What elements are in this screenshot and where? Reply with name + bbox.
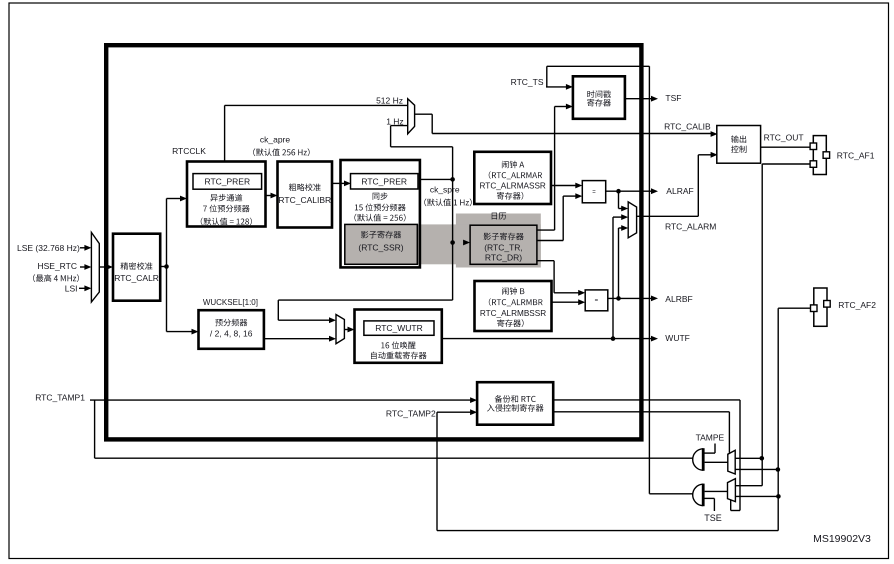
svg-text:512 Hz: 512 Hz [376, 96, 403, 106]
svg-text:ck_spre: ck_spre [430, 184, 460, 194]
wire compA down to alarm mux [618, 191, 620, 208]
wire into timestamp 2 [555, 106, 567, 108]
pin RTC_AF1 pad right [823, 152, 830, 159]
wire wakeup mux out [344, 329, 348, 331]
node ALRAF junction [616, 189, 621, 194]
pin RTC_AF2 pad left [811, 305, 818, 312]
node AF2 junction 1 [776, 467, 781, 472]
svg-text:ALRBF: ALRBF [665, 294, 692, 304]
wire tamp1 down [94, 400, 96, 458]
wire backup out Q [553, 411, 729, 413]
wire to wakeup prescaler [167, 331, 193, 333]
node AF1 tamper junction [760, 456, 765, 461]
svg-text:LSE (32.768 Hz): LSE (32.768 Hz) [17, 243, 80, 253]
arrow TSF [651, 96, 658, 102]
wire tse gate out [705, 490, 728, 492]
inner box RTC_PRER sync [351, 174, 419, 189]
text 默认值256 [354, 214, 405, 222]
wire to alarm mux bottom [619, 227, 623, 229]
wire compA in2 up [562, 196, 564, 240]
node ALRBF junction [616, 296, 621, 301]
wire TSE up [713, 498, 715, 511]
text 粗略校准 [289, 183, 321, 191]
svg-text:TSE: TSE [704, 513, 722, 523]
wire ALRAF line [606, 190, 652, 192]
text 输出 [731, 135, 746, 143]
wire WUTF line [442, 338, 652, 340]
text 精密校准 [121, 262, 153, 270]
wire wutf to alarm mux [613, 216, 622, 218]
arrow into wakeup prescaler [192, 329, 199, 335]
block timestamp registers [573, 76, 625, 119]
wire compA in2 [563, 195, 576, 197]
text 影子寄存器 SSR [361, 231, 401, 239]
svg-text:RTC_AF1: RTC_AF1 [837, 151, 875, 161]
wire alarmB to compB [552, 301, 580, 303]
svg-text:RTC_AF2: RTC_AF2 [838, 300, 876, 310]
wire 1Hz up [452, 147, 454, 180]
svg-text:RTC_OUT: RTC_OUT [764, 133, 804, 143]
arrow into timestamp 2 [566, 104, 573, 110]
arrow alarm mux bottom [621, 225, 628, 231]
wire AF1 down [761, 164, 763, 458]
svg-text:MS19902V3: MS19902V3 [813, 533, 871, 545]
svg-text:LSI: LSI [65, 284, 78, 294]
wire ck_spre down3 [277, 300, 279, 320]
block RTC_CALR smooth calibration [113, 234, 160, 301]
arrow into sync prescaler [344, 181, 351, 187]
wire ck_spre to wakeup mux [278, 319, 330, 321]
wire AF1 down2 [761, 458, 763, 485]
wire compB up to alarm mux [618, 228, 620, 298]
block wakeup prescaler [199, 310, 264, 349]
wire RTC_OUT [761, 146, 810, 148]
arrow into RTC_CALR [106, 264, 113, 270]
text 寄存器) A [497, 192, 523, 200]
wire RTCCLK up [166, 199, 168, 267]
wire ck_spre out [420, 178, 453, 180]
node RTCCLK junction [164, 264, 169, 269]
wire async to calibr [266, 195, 273, 197]
wire AF1 to ts mux [735, 485, 762, 487]
wire tamp2 into backup [437, 411, 471, 413]
wire RTC_ALARM [637, 215, 699, 217]
wire down to wakeup prescaler [166, 267, 168, 332]
svg-text:HSE_RTC: HSE_RTC [37, 261, 77, 271]
gate TAMPE AND bar [702, 448, 705, 471]
arrow into shadow TR DR [463, 240, 470, 246]
pin RTC_AF2 body [814, 288, 827, 326]
wire RTC_TS loop top [547, 65, 650, 67]
arrow ALRAF [651, 188, 658, 194]
comparator B [585, 290, 608, 311]
arrow LSE into mux [84, 245, 91, 251]
block async 7-bit prescaler RTC_PRER [187, 162, 266, 227]
wire compB feed down [553, 261, 555, 293]
wire RTCCLK to async prescaler [167, 198, 182, 200]
wire TAMPE left [703, 452, 715, 454]
arrow RTC_CALIB into output control [711, 131, 718, 137]
wire ck_spre down [452, 179, 454, 242]
wire RTC_TAMP1 [90, 399, 471, 401]
svg-text:RTC_PRER: RTC_PRER [204, 176, 250, 186]
svg-text:RTC_ALRMBSSR: RTC_ALRMBSSR [480, 309, 546, 318]
wire RTC_CALR output [160, 266, 166, 268]
wire mux to RTC_CALR [99, 266, 107, 268]
comparator A [582, 181, 605, 203]
shadow register RTC_SSR box [345, 224, 418, 264]
gate TSE AND bar [702, 484, 705, 507]
alarm output mux [628, 202, 636, 238]
wire AF2 left [778, 307, 810, 309]
arrow WUTF [651, 336, 658, 342]
block alarm A registers [474, 152, 551, 204]
pin RTC_AF1 pad bottom-left [810, 161, 817, 168]
wire calib down [431, 114, 433, 133]
wire RTC_ALARM to output control [698, 154, 712, 156]
svg-text:1 Hz: 1 Hz [386, 116, 403, 126]
svg-text:WUTF: WUTF [665, 333, 690, 343]
wire to alarm mux top [619, 208, 623, 210]
text 预分频器 [215, 319, 247, 327]
wire ck_spre down2 [452, 243, 454, 301]
svg-text:RTC_CALIBR: RTC_CALIBR [278, 195, 331, 205]
tamper pin mux [728, 450, 735, 474]
svg-text:RTC_TAMP1: RTC_TAMP1 [35, 393, 85, 403]
wire HSE_RTC [80, 266, 86, 268]
text 闹钟 A [502, 161, 524, 169]
svg-text:/ 2, 4, 8, 16: / 2, 4, 8, 16 [210, 328, 253, 338]
wire RTC_TS [546, 86, 567, 88]
text 控制 [731, 146, 747, 154]
svg-text:TAMPE: TAMPE [696, 433, 725, 443]
text 备份和 RTC [495, 395, 536, 403]
block backup and tamper control [477, 382, 553, 425]
wire wutf up to alarm mux [612, 217, 614, 339]
label (max 4 MHz) [33, 274, 79, 282]
arrow compA in1 [575, 183, 582, 189]
text 7位预分频器 [203, 205, 250, 213]
text 同步 [373, 192, 388, 200]
wire tamp2 bottom [437, 530, 778, 532]
svg-text:=: = [592, 189, 596, 195]
arrow alarm mux top [621, 206, 628, 212]
text 默认值128 [201, 218, 252, 226]
wire compB in1 [554, 292, 579, 294]
wire 1Hz up2 [390, 126, 392, 147]
text 日历 [492, 213, 506, 220]
text 16位唤醒 [381, 341, 415, 349]
wire ck_spre left [278, 299, 452, 301]
wire 1Hz to mux [391, 125, 408, 127]
svg-text:RTC_CALR: RTC_CALR [114, 273, 159, 283]
wire tamper line [95, 457, 693, 459]
wire ALRBF line [608, 297, 652, 299]
text (RTC_ALRMBR [489, 298, 543, 306]
arrow compA in2 [575, 193, 582, 199]
svg-text:ALRAF: ALRAF [666, 186, 693, 196]
wire 512Hz tap up [224, 105, 226, 161]
wire AF1 tamper [762, 163, 810, 165]
wire alarmA to compA [551, 185, 576, 187]
wire RTC_TS loop up [546, 66, 548, 87]
wire RTC_CALIB line [432, 133, 712, 135]
wire P bottom [731, 510, 740, 512]
text 寄存器) B [497, 319, 523, 327]
svg-text:WUCKSEL[1:0]: WUCKSEL[1:0] [203, 298, 258, 307]
wire LSE [80, 247, 86, 249]
svg-text:RTC_ALRMASSR: RTC_ALRMASSR [480, 181, 546, 190]
wire LSI [79, 287, 86, 289]
svg-text:RTC_TAMP2: RTC_TAMP2 [386, 409, 436, 419]
pin RTC_AF2 pad right [824, 301, 831, 308]
arrow LSI into mux [84, 285, 91, 291]
wire 512Hz horizontal [225, 104, 408, 106]
wire RTC_ALARM up [697, 155, 699, 217]
svg-text:=: = [595, 298, 599, 304]
block RTC_CALIBR coarse calibration [278, 162, 333, 228]
wire ts mux out [735, 495, 778, 497]
node WUTF junction [611, 336, 616, 341]
text 15位预分频器 [355, 204, 406, 212]
node calendar input [450, 240, 455, 245]
wire P up to ts mux [730, 500, 732, 510]
svg-text:RTC_TS: RTC_TS [511, 77, 544, 87]
arrow into async prescaler [180, 196, 187, 202]
svg-text:ck_apre: ck_apre [260, 134, 291, 144]
wire P down [739, 400, 741, 511]
wire calib mux out [415, 113, 433, 115]
wire Q down [728, 412, 730, 453]
wire prescaler to mux [264, 338, 330, 340]
text (RTC_ALRMAR [489, 171, 542, 179]
wire calibr to sync [332, 182, 345, 184]
arrow HSE_RTC into mux [84, 264, 91, 270]
clock source mux [91, 232, 99, 302]
svg-text:RTC_ALARM: RTC_ALARM [665, 222, 716, 232]
arrow into RTC_WUTR [348, 327, 355, 333]
arrow into RTC_CALIBR [271, 193, 278, 199]
text 时间戳 [587, 90, 611, 98]
wire calendar to timestamp [537, 229, 555, 231]
gate TSE AND arc [693, 484, 704, 505]
calib output mux 512Hz/1Hz [408, 99, 415, 134]
label ck_spre default [424, 199, 471, 207]
arrow compB in1 [578, 290, 585, 296]
wire tampe gate out [705, 461, 728, 463]
wire TSF [625, 98, 652, 100]
wire backup out P [553, 399, 740, 401]
text 闹钟 B [502, 287, 524, 295]
text 自动重载寄存器 [371, 352, 427, 360]
arrow into wakeup mux bottom [329, 336, 336, 342]
arrow into wakeup mux top [329, 317, 336, 323]
pin RTC_AF1 pad top-left [810, 143, 817, 150]
block sync 15-bit prescaler RTC_PRER [341, 160, 420, 267]
svg-text:RTC_CALIB: RTC_CALIB [664, 121, 711, 131]
calendar gray area [456, 214, 541, 268]
wire tamp2 up [436, 412, 438, 530]
wire 1Hz left [391, 146, 453, 148]
label ck_apre default [253, 148, 309, 156]
wire tamper mux out A [735, 457, 762, 459]
arrow alarm mux mid [621, 214, 628, 220]
gate TAMPE AND arc [693, 449, 704, 470]
node AF2 junction 2 [776, 494, 781, 499]
node ck_spre [450, 177, 455, 182]
svg-text:(RTC_SSR): (RTC_SSR) [358, 243, 403, 253]
svg-text:(RTC_TR,: (RTC_TR, [484, 243, 523, 253]
arrow ALRBF [651, 296, 658, 302]
arrow compB in2 [578, 299, 585, 305]
arrow into backup 2 [470, 409, 477, 415]
wire calendar to compB [537, 260, 554, 262]
wire RTC_TS to TSE gate [649, 493, 693, 495]
shadow register TR DR box [470, 225, 537, 264]
text 寄存器 ts [587, 99, 611, 107]
RTC block thick border [106, 45, 641, 439]
svg-text:RTC_WUTR: RTC_WUTR [375, 323, 423, 333]
pin RTC_AF1 body [813, 136, 826, 175]
wakeup mux [336, 315, 344, 344]
wire calendar to timestamp up [554, 107, 556, 231]
inner box RTC_WUTR [364, 321, 434, 335]
wire RTC_TS loop down [648, 66, 650, 494]
wire calendar to compA [537, 240, 563, 242]
gray shadow band [345, 224, 541, 264]
wire tamper mux out B [735, 468, 778, 470]
wire AF2 down [777, 308, 779, 530]
timestamp pin mux [728, 479, 736, 502]
wire TSE left [703, 497, 714, 499]
svg-text:RTC_PRER: RTC_PRER [361, 176, 407, 186]
block wakeup auto-reload RTC_WUTR [355, 310, 442, 363]
text 异步通道 [210, 194, 242, 202]
arrow RTC_TS into timestamp [566, 84, 573, 90]
inner box RTC_PRER async [193, 174, 262, 190]
svg-text:RTCCLK: RTCCLK [172, 146, 206, 156]
svg-text:RTC_DR): RTC_DR) [485, 253, 522, 263]
arrow into backup 1 [470, 397, 477, 403]
wire TAMPE down [714, 444, 716, 454]
text 入侵控制寄存器 [487, 404, 544, 412]
arrow into output control 2 [711, 152, 718, 158]
block output control [717, 126, 761, 164]
svg-text:TSF: TSF [665, 93, 681, 103]
text 影子寄存器 TRDR [484, 233, 524, 241]
block alarm B registers [475, 281, 552, 331]
